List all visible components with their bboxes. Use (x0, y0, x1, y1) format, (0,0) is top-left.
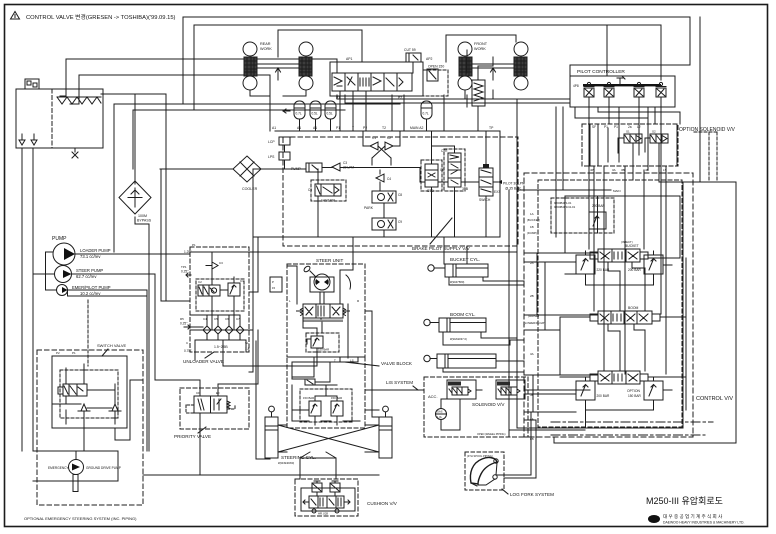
svg-text:4P: 4P (590, 168, 594, 172)
cushion sol head right (330, 483, 340, 492)
park switch C9 (372, 218, 396, 230)
switch valve inner dashed (60, 370, 118, 418)
spool2 pilot caps (590, 314, 660, 321)
wire filter down (135, 217, 149, 451)
acc sphere (436, 409, 447, 420)
svg-text:HR.U28: HR.U28 (318, 512, 328, 516)
emergency pump feed rect (33, 451, 118, 481)
option solenoid valve 2 (650, 134, 668, 143)
log fork pin top (494, 459, 498, 463)
svg-text:C1: C1 (240, 279, 244, 283)
svg-text:150 BAR: 150 BAR (331, 396, 342, 400)
svg-text:WORK: WORK (474, 47, 486, 51)
svg-text:BUCKET: BUCKET (625, 244, 639, 248)
sol valve 2 (501, 387, 517, 395)
wire cut valve drop (412, 62, 414, 73)
switch solenoid valve (479, 168, 493, 196)
svg-text:REAR: REAR (260, 42, 271, 46)
emergency ground pump (69, 460, 84, 475)
main relief valve (589, 212, 606, 229)
wire pilot drops left (556, 107, 563, 237)
svg-text:0.7L: 0.7L (296, 112, 302, 116)
sol valve 2 enclosure (496, 380, 525, 399)
wire cooler feed (193, 168, 233, 170)
wire steer LS right (339, 357, 341, 362)
steer relief valve (311, 336, 323, 348)
wire trunk y59 (66, 59, 337, 96)
unloader solenoid C2 (198, 285, 220, 296)
wire front cluster feed (465, 57, 493, 99)
wire mid trunk (190, 330, 253, 372)
switch valve outer rect (52, 356, 127, 428)
svg-text:1.5~2.5B: 1.5~2.5B (214, 345, 228, 349)
spool3 pilot caps (590, 374, 648, 381)
log fork leader (502, 489, 508, 494)
svg-text:C5: C5 (308, 188, 312, 192)
switch check right (109, 404, 121, 411)
svg-text:P2: P2 (56, 351, 60, 355)
wire c7 (432, 146, 455, 237)
svg-text:C3: C3 (343, 161, 347, 165)
svg-text:C: C (186, 341, 189, 345)
relief valve R3 (576, 381, 595, 400)
wire lis to cylinders (365, 390, 424, 410)
relief valve R2 (644, 255, 663, 274)
wire log fork feeds (497, 412, 536, 478)
rear brake block right (299, 57, 312, 76)
wire return riser x166 (165, 94, 167, 301)
svg-text:C2: C2 (387, 136, 391, 140)
svg-text:3A: 3A (612, 168, 616, 172)
rear wheel top-left (243, 42, 257, 56)
C5 dashed enclosure (311, 180, 346, 201)
svg-text:200 BAR: 200 BAR (597, 394, 610, 398)
svg-text:3A: 3A (530, 352, 534, 356)
return trunk (253, 236, 500, 238)
charge valve C6 (425, 164, 438, 187)
switch solenoid valve SV (63, 384, 87, 396)
lis relief dashed pair box (300, 389, 352, 422)
pump P3 emer pilot (57, 285, 68, 296)
front axle shaft (472, 64, 514, 68)
wire priority out (199, 413, 201, 475)
option solenoid valve 1 (624, 134, 642, 143)
LCP block (279, 137, 290, 145)
control vv dashed box (524, 173, 693, 437)
svg-text:PUMP: PUMP (52, 236, 67, 242)
svg-text:C9: C9 (398, 220, 402, 224)
tank divider dashed (51, 89, 53, 148)
svg-text:FRONT: FRONT (474, 42, 488, 46)
rear wheel bottom-right (299, 76, 313, 90)
priority valve dashed box (180, 388, 249, 429)
accumulator A4 (421, 101, 432, 119)
svg-text:P1: P1 (192, 243, 196, 247)
sol valve 1 enclosure (447, 380, 476, 399)
wire unloader bottom drop (195, 340, 317, 459)
main relief dashed box (551, 198, 614, 233)
wire main supply (249, 251, 517, 253)
steer relief dashed (306, 333, 339, 352)
priority valve body (194, 396, 227, 413)
svg-text:C7R: C7R (441, 149, 448, 153)
wire c5 (317, 169, 319, 237)
svg-text:C1: C1 (372, 136, 376, 140)
pilot pedal 3 (634, 88, 644, 97)
svg-text:CUSHION V/V: CUSHION V/V (367, 501, 398, 506)
bank solid enclosure (330, 62, 423, 96)
front axle arrow (491, 68, 496, 80)
svg-text:L2: L2 (637, 125, 641, 129)
steering wheel (314, 274, 330, 290)
wire check row bottom (195, 334, 246, 340)
pump port valve A1 (306, 163, 322, 172)
svg-text:AP2: AP2 (426, 57, 433, 61)
wire trunk top2b (607, 25, 661, 80)
svg-text:150 BAR: 150 BAR (303, 396, 314, 400)
wire boom ports (443, 332, 524, 372)
wire cushion internal (317, 492, 335, 496)
spool1 valve (598, 249, 640, 262)
wire unloader p1 (190, 251, 249, 253)
wire pilot internal bus (575, 107, 680, 124)
steering arc (346, 275, 351, 289)
solenoid vv dashed box (424, 377, 528, 437)
unloader check C3 (206, 262, 218, 269)
rear wheel top-right (299, 42, 313, 56)
boom2 rod eye (424, 355, 430, 361)
emergency pump shaft (73, 475, 78, 492)
wire solenoid to control (528, 390, 590, 412)
wire valve block top (292, 357, 358, 382)
wire lis internal (292, 385, 360, 425)
svg-text:R: R (357, 299, 360, 303)
wire steer unit T to tank (292, 376, 314, 378)
svg-text:MAIN A2: MAIN A2 (410, 126, 423, 130)
wire tp drop (499, 131, 501, 237)
wire pilot top feed (570, 65, 690, 76)
pilot controller pivot bar (583, 84, 661, 86)
wire steering trunk low (143, 474, 379, 476)
svg-text:PARK: PARK (364, 206, 374, 210)
wire control left risers (533, 253, 545, 412)
svg-text:0.25": 0.25" (181, 270, 188, 274)
svg-text:T2: T2 (382, 126, 386, 130)
boom cylinder 1 (439, 318, 486, 332)
wire right vertical x700 (699, 17, 701, 182)
svg-text:150 BAR: 150 BAR (318, 348, 329, 352)
wire c6 (431, 131, 433, 237)
pilot pedal 2 (604, 88, 614, 97)
wire bank ports down (340, 91, 404, 131)
check pair C1 C2 (370, 142, 393, 150)
svg-text:(INJECT): (INJECT) (621, 240, 633, 244)
svg-text:OPEN (WHEEL PIPING): OPEN (WHEEL PIPING) (477, 432, 506, 436)
svg-text:대 우 중 공 업 기 계 주 식 회 사: 대 우 중 공 업 기 계 주 식 회 사 (663, 513, 723, 520)
pilot pedal pivots (587, 82, 590, 85)
accumulator A3 (325, 101, 336, 119)
wire c4 (379, 182, 381, 191)
svg-text:A1: A1 (313, 126, 317, 130)
svg-text:A1: A1 (272, 126, 276, 130)
front brake block right (514, 57, 527, 76)
cushion bottom circles (312, 509, 316, 513)
wire steer pump line (72, 274, 201, 396)
bucket cylinder (445, 264, 488, 277)
wire trunk y110 (133, 75, 345, 169)
svg-text:C4: C4 (387, 177, 391, 181)
rear axle arrow (276, 68, 281, 80)
wire switch valve (485, 131, 487, 237)
steering right rod eye (383, 406, 389, 412)
bucket rod eye (428, 265, 434, 271)
wire bucket ports (449, 246, 524, 285)
valve block check (305, 379, 315, 385)
svg-text:OPTION: OPTION (627, 389, 641, 393)
wire unloader R5 row (190, 315, 207, 327)
wire rear axle drop left (250, 90, 270, 96)
wire trunk top2 (194, 25, 607, 76)
unloader port arrow (186, 273, 191, 277)
svg-text:SWITCH VALVE: SWITCH VALVE (97, 343, 127, 348)
svg-text:LS: LS (663, 168, 667, 172)
wire pilot dashed to switch (87, 300, 89, 366)
warning triangle dot (14, 15, 16, 18)
svg-text:P: P (272, 280, 274, 284)
svg-text:LCP: LCP (268, 140, 275, 144)
wire switch internal (52, 364, 115, 428)
pilot arrow (498, 180, 502, 184)
wire tank to filter (101, 94, 166, 184)
check valve C3 (332, 163, 340, 171)
valve block dashed box (287, 357, 365, 428)
svg-text:GAS: GAS (437, 410, 443, 414)
wire spool2 to spool3 (608, 324, 645, 371)
wire c8 c9 (383, 203, 385, 237)
svg-text:R5: R5 (180, 317, 184, 321)
wire tank to pumps right (32, 148, 34, 451)
pump P1 loader (53, 243, 75, 265)
solenoid valve C5 (315, 184, 341, 196)
svg-text:BUCKET CYL.: BUCKET CYL. (450, 257, 480, 262)
svg-text:UNLOADER VALVE: UNLOADER VALVE (183, 359, 224, 364)
svg-text:A1: A1 (297, 126, 301, 130)
pilot controller box (570, 76, 675, 107)
lis relief left (309, 401, 321, 416)
steering cylinder left (265, 417, 278, 458)
main brake valve bank (332, 73, 412, 91)
steering wheel knob (303, 265, 311, 273)
steer spool (303, 304, 343, 318)
wire rear cluster feed (278, 30, 362, 62)
wire option return trunk (554, 182, 736, 443)
wire check row top (207, 315, 240, 321)
wire brake valve drop (477, 106, 479, 131)
svg-text:SF: SF (592, 125, 596, 129)
wire priority CF EF (218, 330, 258, 396)
svg-text:C2: C2 (198, 280, 202, 284)
unloader check row C7 (236, 321, 244, 334)
unloader check row C4 (203, 321, 211, 334)
boom1 rod eye (424, 319, 430, 325)
svg-text:LPS: LPS (268, 155, 275, 159)
wire gallery spool1 (565, 251, 680, 285)
control vv inner dashed box (538, 180, 682, 427)
svg-text:OPTION SOLENOID V/V: OPTION SOLENOID V/V (679, 127, 736, 133)
svg-text:2a: 2a (628, 125, 632, 129)
accumulator A2 (310, 101, 321, 119)
pilot pedal 1 (584, 88, 594, 97)
svg-text:220 BAR: 220 BAR (592, 204, 605, 208)
bank option dashed enclosure (423, 70, 448, 96)
svg-text:#(9047580): #(9047580) (450, 280, 464, 284)
tank suction strainer left (19, 134, 25, 145)
option solenoid body edges (590, 124, 677, 166)
wire trunk y75 (79, 75, 270, 131)
return filter F1 (119, 181, 151, 214)
wire pump P1 to unloader (75, 253, 190, 255)
log fork pin bottom (493, 475, 497, 479)
steer port box (270, 277, 282, 292)
wire tank taps (60, 96, 79, 104)
svg-text:LOADER PUMP: LOADER PUMP (80, 248, 111, 253)
control vv internal galleries (565, 196, 680, 258)
priority pilot dashes (186, 405, 235, 413)
oil cooler (233, 156, 261, 182)
wire emergency internal (76, 380, 143, 460)
svg-text:EX3: EX3 (494, 190, 500, 194)
svg-text:EMERGENCY: EMERGENCY (48, 466, 69, 470)
spool3 valve (598, 371, 640, 384)
svg-text:GROUND DRIVE PUMP: GROUND DRIVE PUMP (86, 466, 121, 470)
wire front cluster top (446, 35, 516, 62)
svg-text:STEER UNIT: STEER UNIT (316, 258, 344, 263)
svg-text:#(904946450): #(904946450) (278, 461, 294, 465)
wire gallery spool3 (560, 182, 686, 428)
svg-text:15: 15 (272, 286, 276, 290)
svg-text:DAEWOO HEAVY INDUSTRIES & MACH: DAEWOO HEAVY INDUSTRIES & MACHINERY LTD. (663, 521, 745, 525)
svg-text:OPEN 150: OPEN 150 (428, 65, 444, 69)
cushion valve block (309, 496, 344, 508)
log fork link (471, 463, 497, 486)
cushion inner box (301, 488, 355, 511)
svg-text:VALVE BLOCK: VALVE BLOCK (381, 361, 413, 366)
svg-text:0.75": 0.75" (184, 349, 191, 353)
company logo (648, 515, 660, 523)
wire unloader to tank trunk (249, 237, 258, 292)
svg-text:WORK: WORK (260, 47, 272, 51)
pilot pedal 4 (656, 88, 666, 97)
svg-text:SWICH: SWICH (479, 198, 491, 202)
wire pilot feedback R (345, 95, 570, 103)
svg-text:BOOM CYL.: BOOM CYL. (450, 312, 476, 317)
cushion side arrows (303, 500, 350, 504)
brake pilot leader (430, 218, 452, 244)
svg-text:3B: 3B (621, 168, 625, 172)
wire gallery spool2 (560, 258, 686, 410)
wire brake valve top (478, 66, 493, 80)
front brake block left (459, 57, 472, 76)
log fork bucket profile (470, 457, 497, 484)
steer unit dashed box (287, 264, 365, 357)
svg-text:EMER/PILOT PUMP: EMER/PILOT PUMP (72, 285, 111, 290)
wire emer pump line (68, 290, 148, 451)
wire steer unit LR up (287, 237, 353, 304)
steer spool base bar (303, 320, 343, 323)
wire control feeds left (524, 253, 598, 430)
svg-text:P1: P1 (614, 125, 618, 129)
accumulator A1 (294, 101, 305, 119)
c7 dashed box (444, 149, 465, 191)
unloader leader (205, 352, 214, 358)
svg-text:AP1: AP1 (346, 57, 353, 61)
wire lcp lps (284, 145, 286, 169)
pilot controller handle (617, 76, 625, 84)
wire option internal (618, 138, 659, 166)
svg-text:200 BAR: 200 BAR (628, 268, 641, 272)
wire tank to pumps left (21, 148, 23, 451)
steering cylinder right (379, 417, 392, 458)
rear axle shaft (257, 64, 299, 68)
C6 dashed enclosure (421, 160, 442, 191)
svg-text:4P8: 4P8 (573, 84, 579, 88)
front wheel bottom-right (514, 76, 528, 90)
svg-text:MAIN: MAIN (613, 189, 621, 193)
svg-text:S2: S2 (652, 130, 656, 134)
svg-text:1B: 1B (530, 225, 534, 229)
spool2 valve (598, 311, 652, 324)
wire rear axle drop right (283, 90, 306, 96)
option solenoid dashed box (582, 124, 678, 166)
svg-text:140/1300: 140/1300 (321, 199, 335, 203)
svg-text:0.7L: 0.7L (423, 112, 429, 116)
pilot manifold trunk (275, 130, 500, 132)
front wheel bottom-left (458, 76, 472, 90)
svg-text:PILOT 30 LPM: PILOT 30 LPM (503, 182, 525, 186)
wire pressure to pump (161, 169, 190, 301)
wire trunk y104 (114, 59, 400, 252)
wire mainline MAIN (509, 100, 683, 430)
svg-text:(BUCKET): (BUCKET) (527, 218, 540, 222)
boom cylinder 2 (437, 354, 496, 368)
park switch C8 (372, 191, 396, 203)
priority spring right (227, 401, 230, 409)
svg-text:0.5L: 0.5L (327, 112, 333, 116)
pump suction manifold (33, 252, 57, 290)
pressure line trunk (160, 168, 498, 183)
steering column (320, 292, 324, 304)
cut-off valve CUT59 (406, 53, 421, 62)
wire check pair cross (363, 131, 400, 165)
svg-text:2B: 2B (530, 294, 534, 298)
svg-text:P1: P1 (72, 351, 76, 355)
svg-text:4B: 4B (645, 168, 649, 172)
valve block leader (345, 362, 379, 366)
svg-text:P2: P2 (363, 126, 367, 130)
svg-text:CUT 59: CUT 59 (404, 48, 416, 52)
tank top fitting squares (27, 81, 37, 87)
spool1 pilot caps (590, 252, 648, 259)
cushion sol head left (312, 483, 322, 492)
svg-text:P1: P1 (604, 125, 608, 129)
unloader inner dashed box (196, 279, 244, 311)
svg-text:73.1 cc/rev: 73.1 cc/rev (80, 254, 101, 259)
svg-text:LIS SYSTEM: LIS SYSTEM (386, 380, 413, 385)
control bottom dashdot lower (551, 434, 705, 436)
open150 valve (427, 69, 438, 81)
wire steering cross (278, 425, 379, 452)
unloader check row C6 (225, 321, 233, 334)
